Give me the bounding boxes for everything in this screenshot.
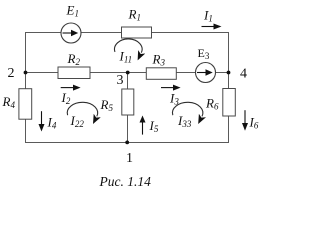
current arrow I4	[39, 111, 45, 131]
svg-text:I6: I6	[249, 114, 259, 130]
label I5	[149, 118, 159, 134]
svg-text:R5: R5	[100, 97, 114, 113]
svg-text:I5: I5	[149, 118, 159, 134]
resistor R4	[19, 89, 32, 120]
label I4	[47, 114, 57, 130]
resistor R2	[58, 67, 90, 79]
wire top horizontal from node 2 column to node 4 column	[25, 32, 229, 34]
label R6	[205, 96, 219, 112]
svg-text:I22: I22	[70, 113, 85, 129]
label I6	[249, 114, 259, 130]
wire left vertical branch (node 2 / R4 branch)	[25, 32, 27, 143]
node 4	[227, 71, 231, 75]
label E1	[66, 3, 79, 19]
resistor R6	[223, 89, 236, 117]
svg-text:R2: R2	[67, 51, 81, 67]
current arrow I3	[161, 85, 181, 91]
current arrow I1	[202, 24, 222, 30]
svg-text:I3: I3	[169, 91, 179, 107]
svg-text:R1: R1	[128, 7, 141, 23]
current arrow I2	[61, 85, 81, 91]
wire bottom horizontal (node 1 row)	[25, 142, 229, 144]
svg-text:E1: E1	[66, 3, 79, 19]
label node 2	[8, 66, 15, 81]
EMF source E1	[61, 23, 81, 43]
caption Puc. 1.14	[99, 174, 152, 189]
resistor R3	[146, 68, 176, 80]
wire middle horizontal (node 2 to node 4 through node 3)	[26, 72, 229, 74]
svg-text:R6: R6	[205, 96, 219, 112]
label E3	[198, 46, 210, 61]
label I3	[169, 91, 179, 107]
svg-text:3: 3	[117, 73, 124, 88]
wire right vertical branch (node 4 / R6 branch)	[228, 32, 230, 143]
label R5	[100, 97, 114, 113]
label node 3	[117, 73, 124, 88]
label I33	[177, 113, 192, 129]
current arrow I5 (upward)	[140, 116, 146, 135]
loop current I11 arc	[115, 39, 143, 53]
svg-text:2: 2	[8, 66, 15, 81]
wire middle vertical branch (node 3 to node 1, R5 branch)	[127, 73, 129, 143]
label I1	[203, 7, 213, 23]
svg-text:I2: I2	[61, 90, 71, 106]
label I2	[61, 90, 71, 106]
resistor R5	[122, 89, 134, 115]
label node 1	[126, 151, 133, 166]
svg-text:R3: R3	[152, 52, 166, 68]
label R2	[67, 51, 81, 67]
svg-text:R4: R4	[2, 94, 16, 110]
svg-text:4: 4	[240, 67, 247, 82]
node 2	[24, 71, 28, 75]
svg-text:I33: I33	[177, 113, 192, 129]
label R3	[152, 52, 166, 68]
svg-text:I4: I4	[47, 114, 57, 130]
label R1	[128, 7, 141, 23]
svg-text:Рис. 1.14: Рис. 1.14	[99, 174, 152, 189]
svg-text:1: 1	[126, 151, 133, 166]
resistor R1	[122, 27, 152, 38]
EMF source E3	[196, 63, 216, 83]
current arrow I6	[242, 110, 248, 131]
node 1	[125, 141, 129, 145]
loop current I22 arc	[67, 102, 97, 116]
label R4	[2, 94, 16, 110]
node 3	[126, 71, 130, 75]
label node 4	[240, 67, 247, 82]
svg-text:I11: I11	[119, 48, 133, 64]
svg-text:E3: E3	[198, 46, 210, 61]
label I22	[70, 113, 85, 129]
svg-text:I1: I1	[203, 7, 213, 23]
label I11	[119, 48, 133, 64]
loop current I33 arc	[172, 102, 202, 116]
